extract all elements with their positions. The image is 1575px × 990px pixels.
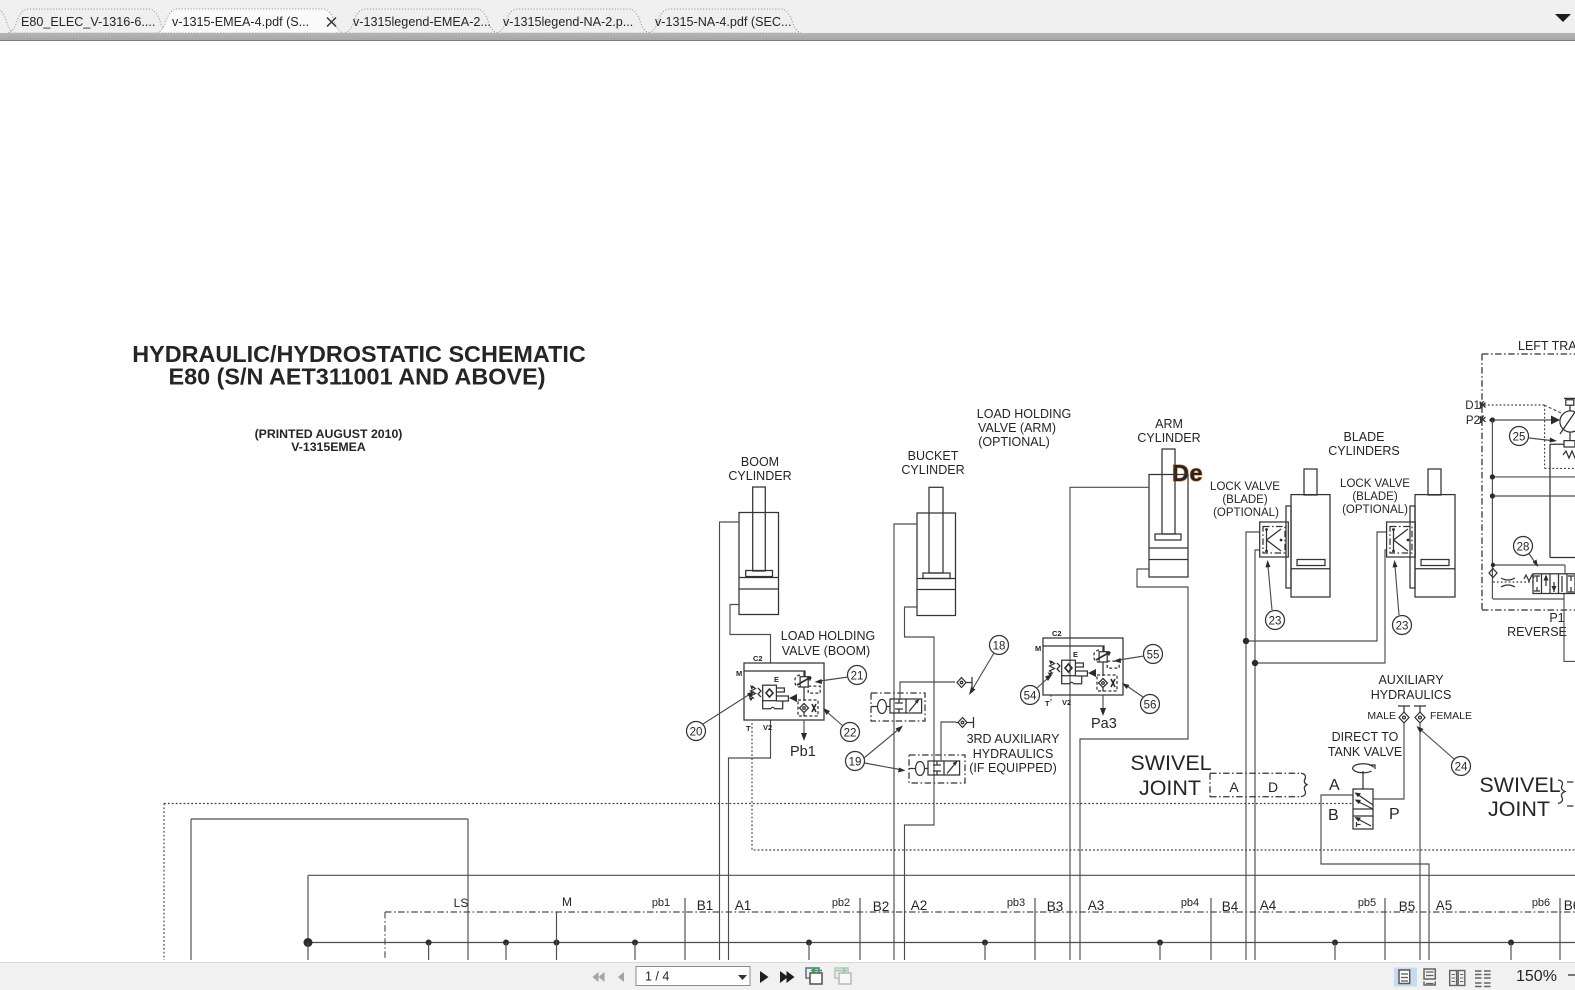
svg-text:C2: C2: [753, 654, 763, 663]
title: [132, 341, 586, 454]
next page button: [760, 971, 769, 983]
svg-text:(BLADE): (BLADE): [1352, 491, 1398, 503]
pilot dotted line from boom valve T: [752, 723, 1575, 850]
swivel joint right brace: [1558, 780, 1575, 806]
wire blade lock B: [1255, 550, 1387, 960]
callout 19: [846, 726, 906, 773]
blade cylinder 1: [1286, 469, 1330, 597]
load holding valve boom block: [736, 654, 824, 741]
wire boom valve V2 to bank: [729, 720, 771, 960]
tab list dropdown arrow: [1555, 14, 1571, 22]
svg-text:Pb1: Pb1: [790, 744, 816, 760]
svg-text:54: 54: [1024, 691, 1037, 703]
svg-text:28: 28: [1517, 542, 1530, 554]
wire aux female drop: [1419, 723, 1421, 960]
svg-text:HYDRAULICS: HYDRAULICS: [973, 747, 1054, 761]
svg-text:REVERSE: REVERSE: [1507, 625, 1567, 639]
svg-text:B1: B1: [697, 898, 714, 913]
label swivel joint left: [1130, 751, 1560, 821]
dash-dot pilot rail: [385, 912, 1575, 960]
wire bucket base port: [905, 607, 935, 960]
left travel P2 supply line: [1480, 416, 1561, 425]
svg-text:LOAD HOLDING: LOAD HOLDING: [977, 407, 1071, 421]
wire tank valve P to male coupler: [1373, 723, 1404, 799]
svg-text:23: 23: [1269, 616, 1282, 628]
svg-text:JOINT: JOINT: [1488, 797, 1550, 821]
svg-text:DIRECT TO: DIRECT TO: [1332, 730, 1399, 744]
bus drop stubs: [308, 943, 1511, 961]
svg-text:pb5: pb5: [1358, 897, 1376, 909]
svg-text:(PRINTED AUGUST 2010): (PRINTED AUGUST 2010): [255, 427, 403, 441]
travel brake valve 28: [1489, 563, 1575, 599]
svg-text:A3: A3: [1088, 898, 1105, 913]
svg-text:18: 18: [993, 641, 1006, 653]
svg-text:23: 23: [1396, 621, 1409, 633]
svg-text:B: B: [1328, 807, 1339, 824]
callout 28: [1514, 537, 1539, 568]
bus junction dots: [426, 940, 1514, 946]
active tab v-1315-EMEA-4.pdf: [157, 9, 343, 33]
svg-text:V2: V2: [1062, 698, 1071, 707]
svg-text:TANK VALVE: TANK VALVE: [1328, 745, 1402, 759]
svg-text:BUCKET: BUCKET: [908, 449, 959, 463]
svg-text:V2: V2: [763, 723, 772, 732]
junction blade A: [1243, 638, 1249, 644]
svg-text:A: A: [1229, 779, 1239, 795]
svg-text:(IF EQUIPPED): (IF EQUIPPED): [969, 761, 1057, 775]
svg-text:19: 19: [849, 757, 862, 769]
lock valve blade 2: [1387, 522, 1416, 557]
svg-text:M: M: [562, 895, 572, 909]
svg-text:T: T: [1045, 699, 1050, 708]
svg-text:A2: A2: [911, 898, 928, 913]
pilot dotted line to tank valve B: [164, 804, 1353, 961]
svg-text:LOCK VALVE: LOCK VALVE: [1340, 478, 1410, 490]
port arrow Pa3: [1102, 695, 1104, 711]
svg-text:v-1315-NA-4.pdf (SEC...: v-1315-NA-4.pdf (SEC...: [655, 15, 791, 29]
main bus rail: [308, 942, 1575, 944]
svg-text:VALVE (BOOM): VALVE (BOOM): [782, 644, 870, 658]
load holding valve arm block: [1035, 629, 1123, 716]
svg-text:E80_ELEC_V-1316-6....: E80_ELEC_V-1316-6....: [21, 15, 155, 29]
male quick coupler: [1398, 706, 1410, 723]
svg-text:pb2: pb2: [832, 897, 850, 909]
single page layout (selected): [1394, 968, 1417, 987]
tab v-1315-NA-4.pdf: [649, 9, 801, 33]
tab E80_ELEC_V-1316-6: [8, 9, 169, 33]
svg-text:M: M: [736, 669, 742, 678]
callout 54: [1021, 674, 1053, 705]
svg-text:P2: P2: [1466, 415, 1480, 427]
junction blade B: [1252, 660, 1258, 666]
svg-text:25: 25: [1513, 432, 1526, 444]
history forward icon (disabled): [835, 968, 848, 978]
T port stub arm: [1050, 695, 1052, 703]
junction bus main: [304, 938, 313, 947]
svg-text:1 / 4: 1 / 4: [645, 970, 669, 984]
check valve boom: [751, 686, 762, 699]
svg-text:C2: C2: [1052, 629, 1062, 638]
svg-text:Pa3: Pa3: [1091, 716, 1117, 732]
wire arm base port: [1080, 569, 1188, 960]
wire blade lock A: [1246, 532, 1387, 960]
callout 20: [687, 691, 755, 741]
svg-text:(OPTIONAL): (OPTIONAL): [978, 435, 1050, 449]
tab v-1315legend-EMEA-2: [345, 9, 497, 33]
tab v-1315legend-NA-2: [497, 9, 649, 33]
svg-text:3RD AUXILIARY: 3RD AUXILIARY: [967, 732, 1061, 746]
travel P1 line: [1564, 599, 1575, 661]
M sense line: [556, 912, 558, 960]
svg-text:A1: A1: [735, 898, 752, 913]
svg-text:D: D: [1268, 779, 1278, 795]
left travel border: [1482, 354, 1575, 610]
wire bank top rail: [308, 875, 1575, 942]
svg-text:LS: LS: [454, 896, 469, 910]
port arrow Pb1: [803, 720, 805, 736]
svg-text:(OPTIONAL): (OPTIONAL): [1213, 507, 1279, 519]
svg-text:24: 24: [1455, 762, 1468, 774]
svg-text:SWIVEL: SWIVEL: [1130, 751, 1211, 775]
svg-text:CYLINDER: CYLINDER: [901, 463, 964, 477]
wire boom base port to load holding valve: [730, 605, 771, 664]
svg-text:pb1: pb1: [652, 897, 670, 909]
svg-text:(BLADE): (BLADE): [1222, 494, 1268, 506]
callout 23 right: [1393, 560, 1412, 635]
check valve arm: [1050, 661, 1061, 674]
svg-text:56: 56: [1144, 700, 1157, 712]
svg-text:55: 55: [1147, 650, 1160, 662]
wire boom rod-side port: [720, 522, 740, 960]
svg-text:BLADE: BLADE: [1344, 430, 1385, 444]
quick disconnect 18: [957, 677, 972, 688]
right edge control fragment: [1568, 974, 1575, 976]
svg-text:v-1315legend-EMEA-2...: v-1315legend-EMEA-2...: [353, 15, 491, 29]
svg-text:V-1315EMEA: V-1315EMEA: [291, 440, 366, 454]
svg-text:SWIVEL: SWIVEL: [1479, 773, 1560, 797]
quick disconnect 19: [956, 717, 974, 728]
svg-text:pb4: pb4: [1181, 897, 1199, 909]
svg-text:VALVE (ARM): VALVE (ARM): [978, 421, 1056, 435]
svg-text:AUXILIARY: AUXILIARY: [1378, 673, 1444, 687]
lock valve blade 1: [1260, 522, 1289, 557]
svg-text:E: E: [774, 675, 779, 684]
svg-text:LOCK VALVE: LOCK VALVE: [1210, 481, 1280, 493]
svg-text:CYLINDER: CYLINDER: [1137, 431, 1200, 445]
direct to tank valve: [1353, 764, 1375, 829]
valve bank port labels: [652, 897, 1550, 909]
continuous layout: [1424, 969, 1435, 979]
callout 24: [1417, 726, 1471, 776]
svg-text:LOAD HOLDING: LOAD HOLDING: [781, 629, 875, 643]
left travel D1 pilot line: [1480, 401, 1562, 413]
callout 23 left: [1266, 560, 1285, 630]
svg-text:(OPTIONAL): (OPTIONAL): [1342, 504, 1408, 516]
wire tank valve A drop: [1321, 795, 1429, 960]
svg-text:HYDRAULICS: HYDRAULICS: [1371, 688, 1452, 702]
svg-text:A: A: [1329, 777, 1340, 794]
svg-text:A4: A4: [1260, 898, 1277, 913]
swivel joint A D box: [1210, 773, 1307, 797]
bucket cylinder: [917, 487, 956, 615]
svg-text:D1: D1: [1465, 400, 1480, 412]
blade cylinder 2: [1410, 469, 1455, 597]
callout 18: [969, 636, 1009, 696]
svg-text:v-1315-EMEA-4.pdf (S...: v-1315-EMEA-4.pdf (S...: [172, 15, 309, 29]
svg-text:E: E: [1073, 650, 1078, 659]
svg-text:P: P: [1389, 806, 1400, 823]
svg-text:CYLINDER: CYLINDER: [728, 469, 791, 483]
svg-text:MALE: MALE: [1367, 710, 1396, 722]
svg-text:LEFT TRAVE: LEFT TRAVE: [1518, 339, 1575, 353]
svg-text:pb3: pb3: [1007, 897, 1025, 909]
svg-text:A5: A5: [1436, 898, 1453, 913]
svg-text:M: M: [1035, 644, 1041, 653]
svg-text:22: 22: [844, 728, 857, 740]
callout 25: [1510, 427, 1558, 446]
close button x: [327, 18, 336, 27]
callout 56: [1122, 683, 1160, 714]
svg-text:pb6: pb6: [1532, 897, 1550, 909]
first page button: [593, 972, 605, 982]
travel pilot dotted box: [1545, 405, 1575, 468]
svg-text:P1: P1: [1549, 611, 1564, 625]
svg-text:150%: 150%: [1516, 968, 1557, 985]
female quick coupler: [1414, 706, 1426, 723]
wire bank feed rect: [191, 819, 468, 960]
boom cylinder: [739, 487, 779, 615]
callout 22: [823, 708, 860, 742]
svg-text:ARM: ARM: [1155, 417, 1183, 431]
travel crossover lines: [1490, 420, 1575, 599]
svg-text:21: 21: [851, 671, 864, 683]
svg-text:FEMALE: FEMALE: [1430, 710, 1472, 722]
svg-text:T: T: [746, 724, 751, 733]
rotary handle: [1362, 771, 1364, 789]
pilot relief boom: [795, 675, 800, 687]
callout 55: [1114, 645, 1163, 664]
callout 21: [815, 666, 867, 685]
svg-text:JOINT: JOINT: [1139, 776, 1201, 800]
svg-text:20: 20: [690, 727, 703, 739]
arm cylinder: [1149, 449, 1188, 577]
travel motor: [1550, 398, 1575, 557]
last page button: [780, 971, 788, 983]
aux relief valve 18: [871, 682, 955, 721]
two page layout: [1450, 971, 1457, 986]
wire arm rod-side port: [1070, 487, 1149, 960]
history back icon: [806, 968, 819, 978]
svg-text:E80 (S/N AET311001 AND ABOVE): E80 (S/N AET311001 AND ABOVE): [169, 364, 546, 390]
wire bucket rod-side port: [894, 524, 917, 960]
svg-text:CYLINDERS: CYLINDERS: [1328, 444, 1400, 458]
pilot check diamond boom: [800, 704, 809, 717]
valve bank work port labels: [697, 898, 1575, 914]
spool divider lines: [685, 898, 1560, 960]
pilot check diamond arm: [1099, 679, 1108, 692]
prev page button: [618, 972, 624, 982]
pilot relief arm: [1094, 650, 1099, 662]
two page continuous layout: [1475, 971, 1491, 987]
svg-text:v-1315legend-NA-2.p...: v-1315legend-NA-2.p...: [503, 15, 633, 29]
aux relief valve 19: [909, 722, 965, 783]
partial tab edge at far left: [0, 8, 14, 33]
svg-text:BOOM: BOOM: [741, 455, 779, 469]
page number box: [636, 967, 750, 986]
svg-text:B6: B6: [1564, 898, 1575, 913]
